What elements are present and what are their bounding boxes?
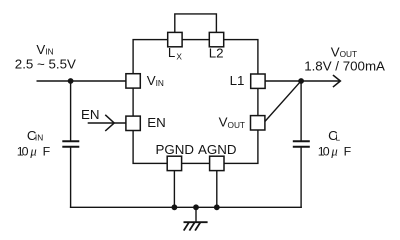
svg-text:VOUT: VOUT (219, 114, 245, 130)
svg-text:L1: L1 (230, 73, 245, 88)
svg-text:EN: EN (147, 115, 166, 130)
svg-text:EN: EN (81, 107, 100, 122)
svg-text:10μF: 10μF (17, 144, 51, 158)
svg-text:CL: CL (328, 128, 340, 143)
svg-text:VIN: VIN (36, 42, 53, 57)
svg-text:2.5 ~ 5.5V: 2.5 ~ 5.5V (15, 57, 76, 72)
svg-text:AGND: AGND (198, 142, 237, 157)
svg-text:1.8V / 700mA: 1.8V / 700mA (304, 59, 385, 74)
svg-text:10μF: 10μF (318, 144, 352, 158)
svg-text:PGND: PGND (156, 142, 195, 157)
svg-text:VIN: VIN (147, 73, 164, 88)
svg-text:CIN: CIN (27, 128, 43, 143)
svg-text:L2: L2 (209, 45, 224, 60)
svg-text:VOUT: VOUT (331, 45, 357, 60)
